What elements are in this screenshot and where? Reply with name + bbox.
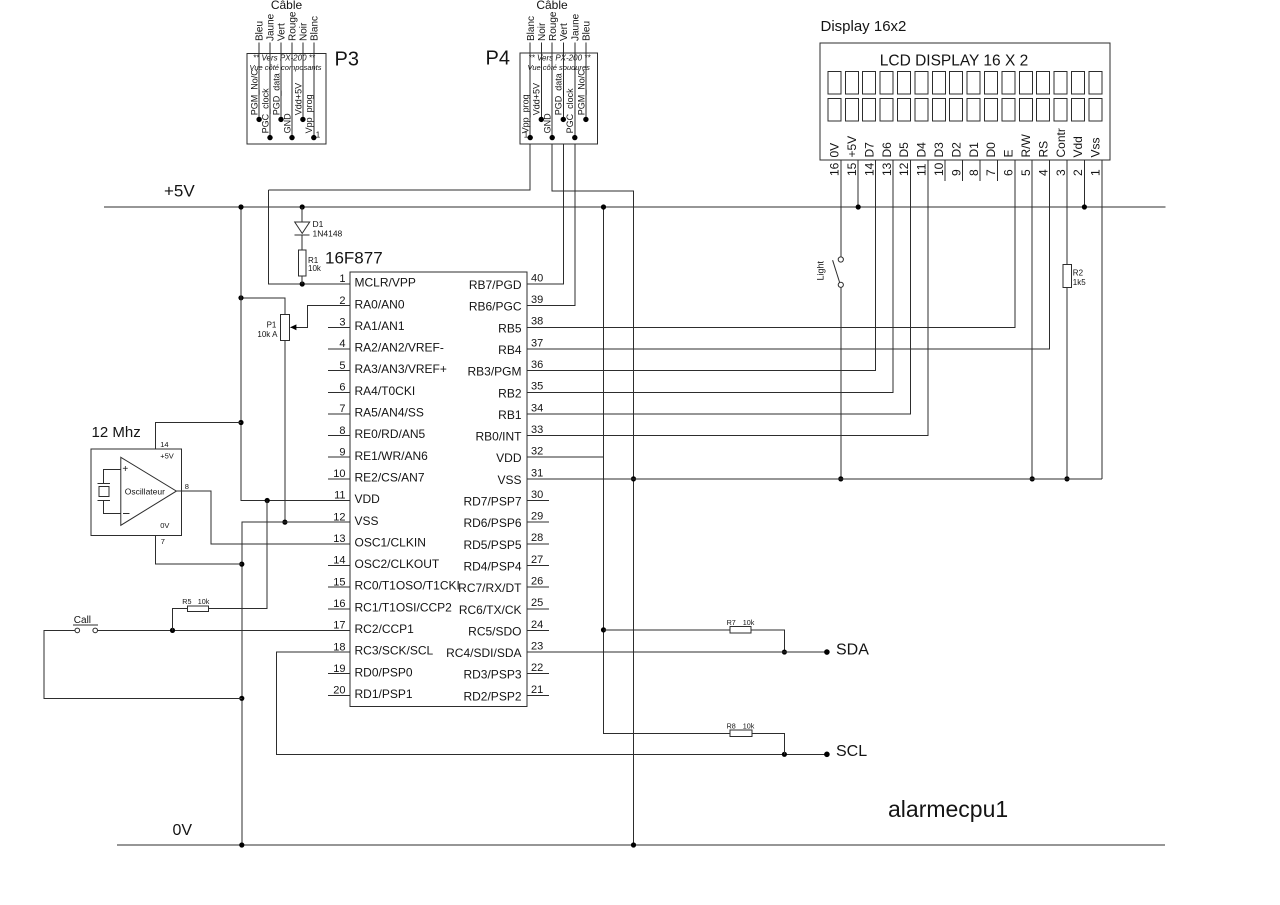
svg-text:D3: D3 <box>932 142 946 158</box>
svg-text:RD0/PSP0: RD0/PSP0 <box>355 665 413 679</box>
resistor R8 <box>730 730 752 737</box>
P4 cable wire Vert <box>562 43 564 120</box>
wire P1 bottom to VSS line <box>284 341 286 522</box>
wire stub U1 pin 8 <box>328 435 350 437</box>
LCD character cell row2 col14 <box>1054 99 1067 121</box>
svg-text:15: 15 <box>845 162 859 176</box>
svg-text:Vert: Vert <box>277 23 288 41</box>
svg-text:SCL: SCL <box>836 743 867 760</box>
svg-text:35: 35 <box>531 381 543 393</box>
LCD character cell row2 col16 <box>1089 99 1102 121</box>
svg-text:34: 34 <box>531 402 543 414</box>
svg-text:RD5/PSP5: RD5/PSP5 <box>463 538 521 552</box>
svg-text:Contr: Contr <box>1054 128 1068 157</box>
svg-text:28: 28 <box>531 532 543 544</box>
svg-text:1k5: 1k5 <box>1073 278 1086 287</box>
svg-text:RC4/SDI/SDA: RC4/SDI/SDA <box>446 646 521 660</box>
wire P1 wiper to RA0 pin 2 <box>291 306 350 328</box>
svg-text:RB4: RB4 <box>498 343 522 357</box>
svg-text:8: 8 <box>339 425 345 437</box>
svg-text:Vss: Vss <box>1089 137 1103 157</box>
junction GND / 0V rail <box>631 842 636 847</box>
svg-text:RD3/PSP3: RD3/PSP3 <box>463 668 521 682</box>
wire stub U1 pin 9 <box>328 456 350 458</box>
svg-text:RD2/PSP2: RD2/PSP2 <box>463 689 521 703</box>
svg-text:Vdd+5V: Vdd+5V <box>532 83 542 115</box>
svg-text:36: 36 <box>531 359 543 371</box>
junction light switch / VSS line <box>838 476 843 481</box>
junction R5 riser / VDD <box>265 498 270 503</box>
svg-text:D0: D0 <box>984 142 998 158</box>
svg-text:RB1: RB1 <box>498 408 522 422</box>
wire RC4 pin 23 SDA line <box>527 651 827 653</box>
P4 pin dot Vpp_prog <box>528 135 533 140</box>
P4 pin dot PGD_data <box>561 117 566 122</box>
wire light switch to VSS line <box>840 287 842 478</box>
svg-text:RC7/RX/DT: RC7/RX/DT <box>458 581 522 595</box>
junction GND / VSS line <box>631 476 636 481</box>
svg-text:GND: GND <box>543 113 553 134</box>
svg-text:15: 15 <box>333 576 345 588</box>
wire RC3 pin 18 to SCL <box>277 652 827 754</box>
wire crystal to minus input <box>104 501 121 514</box>
svg-text:1: 1 <box>339 273 345 285</box>
LCD character cell row2 col9 <box>967 99 980 121</box>
svg-text:PGC_clock: PGC_clock <box>260 88 270 134</box>
wire R7 leads <box>604 629 731 631</box>
wire PGC P4 to RB6 pin 39 <box>527 144 575 306</box>
wire stub U1 pin 7 <box>328 413 350 415</box>
LCD character cell row1 col16 <box>1089 72 1102 94</box>
svg-text:12: 12 <box>333 511 345 523</box>
svg-text:17: 17 <box>333 620 345 632</box>
svg-text:P1: P1 <box>267 321 277 330</box>
wire VSS branch pin 12 <box>242 522 350 845</box>
svg-text:6: 6 <box>339 381 345 393</box>
svg-text:16: 16 <box>828 162 842 176</box>
svg-text:19: 19 <box>333 663 345 675</box>
junction R1 / MCLR <box>300 281 305 286</box>
junction VSS branch / 0V rail <box>239 842 244 847</box>
wire stub U1 pin 5 <box>328 370 350 372</box>
svg-text:10k: 10k <box>198 597 210 606</box>
P3 cable wire Jaune <box>269 43 271 138</box>
P4 cable wire Rouge <box>551 43 553 138</box>
svg-text:23: 23 <box>531 640 543 652</box>
svg-text:VDD: VDD <box>355 492 381 506</box>
svg-text:13: 13 <box>880 162 894 176</box>
LCD character cell row1 col5 <box>898 72 911 94</box>
svg-text:Noir: Noir <box>299 22 310 41</box>
svg-text:3: 3 <box>1054 169 1068 176</box>
svg-text:Rouge: Rouge <box>288 11 299 41</box>
svg-text:D1: D1 <box>313 219 324 229</box>
svg-text:16F877: 16F877 <box>325 249 383 268</box>
svg-text:PGD_data: PGD_data <box>554 73 564 115</box>
svg-text:RB5: RB5 <box>498 321 522 335</box>
wire R5 right lead to VDD <box>209 501 268 609</box>
svg-text:5: 5 <box>339 360 345 372</box>
P3 pin dot GND <box>289 135 294 140</box>
wire Vpp_prog P4 to MCLR riser <box>268 144 530 190</box>
svg-text:RB2: RB2 <box>498 386 522 400</box>
crystal X1 <box>98 483 110 485</box>
svg-text:Jaune: Jaune <box>266 13 277 41</box>
oscillator module body <box>91 449 181 536</box>
svg-text:Blanc: Blanc <box>526 16 537 41</box>
svg-text:38: 38 <box>531 316 543 328</box>
wire LCD pin15 +5V to rail <box>857 160 859 207</box>
0V ground rail <box>117 844 1165 846</box>
svg-text:Vpp_prog: Vpp_prog <box>521 94 531 133</box>
svg-text:1: 1 <box>316 130 321 139</box>
svg-text:14: 14 <box>862 162 876 176</box>
junction LCD Vdd / rail <box>1082 204 1087 209</box>
svg-text:RA2/AN2/VREF-: RA2/AN2/VREF- <box>355 341 444 355</box>
svg-text:Call: Call <box>74 615 91 626</box>
svg-text:18: 18 <box>333 641 345 653</box>
wire stub U1 pin 24 <box>527 629 549 631</box>
svg-text:RA5/AN4/SS: RA5/AN4/SS <box>355 406 424 420</box>
svg-text:D5: D5 <box>897 142 911 158</box>
wire MCLR riser and pin 1 <box>268 190 350 284</box>
wire stub U1 pin 30 <box>527 500 549 502</box>
svg-text:RC1/T1OSI/CCP2: RC1/T1OSI/CCP2 <box>355 600 453 614</box>
resistor R7 <box>730 627 751 634</box>
svg-text:32: 32 <box>531 446 543 458</box>
wire LCD E to RB5 pin 38 <box>527 160 1015 327</box>
svg-text:RA3/AN3/VREF+: RA3/AN3/VREF+ <box>355 362 447 376</box>
svg-text:1: 1 <box>1089 169 1103 176</box>
node SCL terminal <box>824 752 830 758</box>
wire stub U1 pin 26 <box>527 586 549 588</box>
wire crystal to plus input <box>104 470 121 484</box>
svg-text:VSS: VSS <box>355 514 379 528</box>
svg-text:4: 4 <box>1036 169 1050 176</box>
wire stub U1 pin 6 <box>328 391 350 393</box>
junction R5 / RC2 line <box>170 628 175 633</box>
LCD character cell row1 col1 <box>828 72 841 94</box>
svg-text:RC2/CCP1: RC2/CCP1 <box>355 622 415 636</box>
svg-text:22: 22 <box>531 662 543 674</box>
svg-text:SDA: SDA <box>836 642 869 659</box>
junction D1 anode / +5V rail <box>300 204 305 209</box>
wire oscillator +5V pin <box>156 423 241 449</box>
junction oscillator +5V / branch <box>238 420 243 425</box>
svg-text:3: 3 <box>339 317 345 329</box>
svg-text:alarmecpu1: alarmecpu1 <box>888 796 1008 822</box>
LCD character cell row1 col11 <box>1002 72 1015 94</box>
svg-text:RC6/TX/CK: RC6/TX/CK <box>459 603 522 617</box>
svg-text:27: 27 <box>531 554 543 566</box>
wire stub U1 pin 20 <box>328 694 350 696</box>
svg-text:D7: D7 <box>862 142 876 158</box>
LCD character cell row1 col10 <box>985 72 998 94</box>
LCD character cell row1 col2 <box>845 72 858 94</box>
wire +5V drop to R8 <box>604 207 731 733</box>
svg-text:7: 7 <box>339 403 345 415</box>
junction P1 bottom / VSS <box>282 520 287 525</box>
svg-text:RB3/PGM: RB3/PGM <box>467 365 521 379</box>
svg-text:Câble: Câble <box>271 0 303 12</box>
P3 cable wire Rouge <box>291 43 293 138</box>
LCD character cell row1 col6 <box>915 72 928 94</box>
svg-text:** Vers PX-200 **: ** Vers PX-200 ** <box>253 54 316 63</box>
svg-text:OSC1/CLKIN: OSC1/CLKIN <box>355 535 426 549</box>
resistor R2 <box>1063 264 1072 287</box>
svg-text:D1: D1 <box>967 142 981 158</box>
svg-text:11: 11 <box>334 490 345 502</box>
svg-text:0V: 0V <box>160 521 169 530</box>
wire LCD pin2 Vdd to rail <box>1083 160 1085 207</box>
svg-text:R/W: R/W <box>1019 134 1033 158</box>
LCD character cell row1 col7 <box>932 72 945 94</box>
svg-text:26: 26 <box>531 576 543 588</box>
svg-text:10k A: 10k A <box>257 330 278 339</box>
svg-text:RB0/INT: RB0/INT <box>475 430 522 444</box>
wire call switch return to ground <box>44 630 242 698</box>
junction +5V branch / rail <box>238 204 243 209</box>
LCD character cell row1 col14 <box>1054 72 1067 94</box>
svg-text:RD4/PSP4: RD4/PSP4 <box>463 559 521 573</box>
LCD character cell row2 col10 <box>985 99 998 121</box>
svg-text:PGM_No/C: PGM_No/C <box>250 69 260 116</box>
junction +5V drop / R7 <box>601 627 606 632</box>
wire LCD D5 to RB1 pin 34 <box>527 160 910 414</box>
svg-text:Vue côté composants: Vue côté composants <box>250 63 322 72</box>
svg-text:14: 14 <box>160 440 168 449</box>
svg-text:RD6/PSP6: RD6/PSP6 <box>463 516 521 530</box>
LCD character cell row1 col3 <box>863 72 876 94</box>
oscillator minus input mark <box>123 513 129 515</box>
svg-text:39: 39 <box>531 294 543 306</box>
svg-text:MCLR/VPP: MCLR/VPP <box>355 276 416 290</box>
svg-text:RC5/SDO: RC5/SDO <box>468 624 521 638</box>
LCD character cell row2 col2 <box>845 99 858 121</box>
svg-text:Vdd+5V: Vdd+5V <box>293 83 303 115</box>
svg-text:5: 5 <box>1019 169 1033 176</box>
svg-text:9: 9 <box>949 169 963 176</box>
svg-text:PGM_No/C: PGM_No/C <box>576 69 586 116</box>
wire LCD Contr to R2 <box>1066 160 1068 264</box>
svg-text:VDD: VDD <box>496 451 522 465</box>
svg-text:Câble: Câble <box>536 0 568 12</box>
svg-text:RE0/RD/AN5: RE0/RD/AN5 <box>355 427 426 441</box>
P4 cable wire Noir <box>540 43 542 120</box>
svg-text:10k: 10k <box>743 722 755 731</box>
svg-text:6: 6 <box>1002 169 1016 176</box>
wire VDD pin 32 to +5V drop <box>527 456 604 458</box>
wire stub U1 pin 10 <box>328 478 350 480</box>
junction +5V drop / rail <box>601 204 606 209</box>
svg-text:11: 11 <box>915 163 929 176</box>
wire R2 to VSS line <box>1066 288 1068 479</box>
svg-text:Vpp_prog: Vpp_prog <box>304 94 314 133</box>
svg-text:10k: 10k <box>743 618 755 627</box>
wire oscillator 0V pin <box>156 535 242 564</box>
wire LCD R/W to VSS line <box>1031 160 1033 479</box>
svg-text:2: 2 <box>1071 169 1085 176</box>
svg-text:LCD DISPLAY 16 X 2: LCD DISPLAY 16 X 2 <box>880 53 1028 70</box>
svg-text:PGD_data: PGD_data <box>271 73 281 115</box>
wire stub U1 pin 15 <box>328 586 350 588</box>
svg-text:4: 4 <box>339 338 345 350</box>
wire LCD Vss pin1 to VSS line <box>1101 160 1103 479</box>
P3 pin dot Vpp_prog <box>311 135 316 140</box>
wire LCD D7 to RB3 pin 36 <box>527 160 876 371</box>
LCD character cell row1 col15 <box>1072 72 1085 94</box>
svg-text:29: 29 <box>531 511 543 523</box>
wire LCD RS to RB4 pin 37 <box>527 160 1050 349</box>
P3 pin dot Vdd+5V <box>300 117 305 122</box>
svg-text:0V: 0V <box>173 822 193 839</box>
LCD character cell row1 col12 <box>1019 72 1032 94</box>
svg-text:RA0/AN0: RA0/AN0 <box>355 297 405 311</box>
wire stub U1 pin 19 <box>328 673 350 675</box>
junction oscillator 0V / VSS branch <box>239 562 244 567</box>
svg-text:1: 1 <box>524 130 529 139</box>
wire stub U1 pin 22 <box>527 673 549 675</box>
wire stub U1 pin 27 <box>527 564 549 566</box>
connector P3 body <box>247 54 326 145</box>
LCD character cell row2 col1 <box>828 99 841 121</box>
svg-text:Light: Light <box>816 260 826 280</box>
svg-text:R2: R2 <box>1073 269 1084 278</box>
svg-text:30: 30 <box>531 489 543 501</box>
P3 pin dot PGM_No/C <box>256 117 261 122</box>
wire stub U1 pin 4 <box>328 348 350 350</box>
svg-text:OSC2/CLKOUT: OSC2/CLKOUT <box>355 557 440 571</box>
svg-text:10: 10 <box>333 468 345 480</box>
svg-text:12 Mhz: 12 Mhz <box>92 424 141 441</box>
svg-text:9: 9 <box>339 446 345 458</box>
svg-text:31: 31 <box>531 467 543 479</box>
node SDA terminal <box>824 649 830 655</box>
svg-text:Rouge: Rouge <box>548 11 559 41</box>
P4 pin dot PGC_clock <box>572 135 577 140</box>
svg-text:Display 16x2: Display 16x2 <box>821 18 907 35</box>
junction LCD +5V / rail <box>856 204 861 209</box>
P3 cable wire Vert <box>280 43 282 120</box>
LCD character cell row2 col13 <box>1037 99 1050 121</box>
svg-text:Vert: Vert <box>559 23 570 41</box>
svg-text:21: 21 <box>531 684 543 696</box>
svg-text:GND: GND <box>282 113 292 134</box>
svg-text:VSS: VSS <box>497 473 521 487</box>
svg-text:D2: D2 <box>949 142 963 158</box>
LCD character cell row2 col4 <box>880 99 893 121</box>
svg-text:P4: P4 <box>486 48 510 70</box>
resistor R1 <box>298 250 306 276</box>
+5V power rail <box>104 206 1166 208</box>
wire GND P4 down to VSS net <box>552 144 633 845</box>
svg-text:40: 40 <box>531 272 543 284</box>
svg-text:20: 20 <box>333 685 345 697</box>
junction call return / VSS branch <box>239 696 244 701</box>
LCD character cell row2 col3 <box>863 99 876 121</box>
P3 pin dot PGD_data <box>278 117 283 122</box>
svg-text:12: 12 <box>897 162 911 176</box>
switch Light <box>838 257 843 262</box>
LCD character cell row2 col7 <box>932 99 945 121</box>
P3 cable wire Noir <box>302 43 304 120</box>
svg-text:16: 16 <box>333 598 345 610</box>
svg-text:14: 14 <box>333 555 345 567</box>
wire LCD pin16 0V to light switch <box>840 160 842 257</box>
wire R5 left lead <box>173 609 188 631</box>
oscillator amplifier triangle <box>121 457 177 525</box>
svg-text:7: 7 <box>161 537 165 546</box>
wire LCD D6 to RB2 pin 35 <box>527 160 893 392</box>
svg-text:R5: R5 <box>182 597 191 606</box>
svg-text:RS: RS <box>1036 141 1050 158</box>
svg-text:+5V: +5V <box>845 136 859 158</box>
LCD character cell row2 col12 <box>1019 99 1032 121</box>
resistor R5 <box>188 606 209 612</box>
LCD character cell row1 col9 <box>967 72 980 94</box>
wire D1 to R1 <box>301 235 303 250</box>
wire VSS pin 31 line <box>527 478 1102 480</box>
P4 pin dot Vdd+5V <box>539 117 544 122</box>
wire stub LCD D2 <box>962 160 964 181</box>
wire P1 top to +5V branch <box>241 298 285 315</box>
svg-text:13: 13 <box>333 533 345 545</box>
svg-text:1N4148: 1N4148 <box>313 229 343 239</box>
P4 pin dot PGM_No/C <box>583 117 588 122</box>
svg-text:RA1/AN1: RA1/AN1 <box>355 319 405 333</box>
wire stub U1 pin 16 <box>328 608 350 610</box>
switch Call <box>75 628 80 633</box>
LCD character cell row1 col4 <box>880 72 893 94</box>
wire stub U1 pin 29 <box>527 521 549 523</box>
LCD character cell row2 col8 <box>950 99 963 121</box>
LCD character cell row1 col8 <box>950 72 963 94</box>
svg-text:RE2/CS/AN7: RE2/CS/AN7 <box>355 470 425 484</box>
svg-text:RB6/PGC: RB6/PGC <box>469 300 522 314</box>
wire R8 right lead <box>752 733 785 754</box>
P4 cable wire Jaune <box>574 43 576 138</box>
P4 cable wire Bleu <box>585 43 587 120</box>
svg-text:+5V: +5V <box>164 182 195 201</box>
svg-text:R8: R8 <box>727 722 736 731</box>
LCD character cell row1 col13 <box>1037 72 1050 94</box>
svg-text:25: 25 <box>531 597 543 609</box>
LCD character cell row2 col6 <box>915 99 928 121</box>
svg-text:Oscillateur: Oscillateur <box>125 487 165 497</box>
svg-text:Vdd: Vdd <box>1071 136 1085 157</box>
LCD character cell row2 col15 <box>1072 99 1085 121</box>
wire stub U1 pin 25 <box>527 608 549 610</box>
svg-text:RC0/T1OSO/T1CKI: RC0/T1OSO/T1CKI <box>355 579 460 593</box>
svg-text:37: 37 <box>531 337 543 349</box>
svg-text:2: 2 <box>339 295 345 307</box>
svg-text:RE1/WR/AN6: RE1/WR/AN6 <box>355 449 429 463</box>
wire stub U1 pin 3 <box>328 326 350 328</box>
wire oscillator output to OSC1 pin 13 <box>176 491 350 544</box>
P1 wiper arrow <box>290 324 296 330</box>
svg-text:** Vers PX-200 **: ** Vers PX-200 ** <box>529 54 592 63</box>
wire stub LCD D1 <box>979 160 981 181</box>
svg-text:10k: 10k <box>308 264 322 273</box>
wire RC2 pin 17 to call switch <box>97 629 350 631</box>
junction R2 / VSS line <box>1064 476 1069 481</box>
wire stub U1 pin 28 <box>527 543 549 545</box>
diode D1 <box>295 222 310 233</box>
junction R/W / VSS line <box>1030 476 1035 481</box>
svg-text:RD1/PSP1: RD1/PSP1 <box>355 687 413 701</box>
junction P1 top / +5V branch <box>238 295 243 300</box>
wire stub LCD D0 <box>996 160 998 181</box>
